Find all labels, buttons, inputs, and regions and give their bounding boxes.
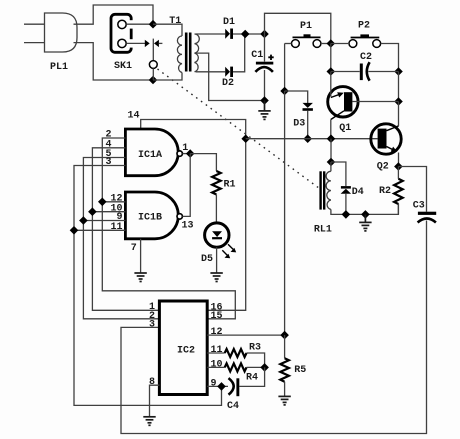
- IC2 pin 10 wire: [207, 366, 225, 368]
- pushbutton P2: [349, 21, 381, 48]
- wire P1-P2 node to P2 left: [331, 43, 349, 45]
- svg-text:R1: R1: [223, 180, 235, 191]
- svg-text:D1: D1: [223, 17, 235, 28]
- wire left rail P1 node to C2: [330, 44, 332, 72]
- node bus junction pin12: [98, 198, 107, 207]
- wire node down to C4 right plate: [239, 367, 264, 386]
- svg-text:Q2: Q2: [377, 162, 389, 173]
- wire right rail C2 to Q1 base node: [398, 72, 400, 102]
- svg-text:13: 13: [181, 220, 193, 231]
- wire rail x284 down to IC2 pin12 node: [284, 91, 286, 335]
- wire P1 left lead: [285, 43, 292, 45]
- svg-text:IC1B: IC1B: [138, 212, 162, 223]
- IC1B pin 12 wire: [102, 201, 125, 203]
- node bus junction pin11: [70, 226, 79, 235]
- node D4 bottom junction: [342, 210, 351, 219]
- IC2 pin 12 wire to R5 node: [207, 334, 284, 336]
- svg-text:C2: C2: [360, 52, 372, 63]
- wire P1 right lead: [321, 43, 331, 45]
- wire plug to loop bottom: [74, 43, 154, 80]
- capacitor C3: [413, 201, 436, 223]
- wire R4 to node: [247, 366, 265, 368]
- node C2 left junction: [327, 67, 336, 76]
- IC2: [159, 301, 207, 395]
- diode D2: [222, 67, 234, 90]
- node R3/R4 junction: [260, 363, 269, 372]
- LED D5: [201, 223, 236, 265]
- IC1A pin 3 wire / bus to IC2 pin9 line: [74, 166, 222, 406]
- svg-text:Q1: Q1: [339, 123, 351, 134]
- IC1B pin 11 wire: [74, 229, 125, 231]
- wire C3 down the right edge to bottom rail: [121, 221, 427, 434]
- resistor R4: [225, 363, 258, 383]
- IC2 pin 9 wire: [207, 385, 228, 387]
- wire +V over-route to pushbuttons: [265, 13, 331, 43]
- IC1B pin 7 stub: [140, 239, 142, 273]
- svg-text:3: 3: [105, 157, 111, 168]
- svg-text:D3: D3: [293, 119, 305, 130]
- svg-text:3: 3: [149, 319, 155, 330]
- svg-text:C1: C1: [251, 50, 263, 61]
- wire transformer primary bottom to node: [153, 73, 182, 81]
- wire D4 top lead: [331, 162, 346, 186]
- IC1A pin 5 wire / bus to IC2 pin2: [83, 158, 159, 319]
- wire secondary top lead: [196, 33, 226, 35]
- svg-text:15: 15: [211, 311, 223, 322]
- svg-text:R3: R3: [249, 343, 261, 354]
- resistor R1: [212, 171, 235, 222]
- node P1/D3 junction: [280, 87, 289, 96]
- node bus junction pin10: [88, 207, 97, 216]
- NAND gate IC1B: [125, 192, 182, 239]
- ground (relay rail): [359, 214, 371, 231]
- node: mains bottom junction: [149, 76, 158, 85]
- plug PL1: [24, 13, 77, 73]
- node relay rail ground junction: [361, 210, 370, 219]
- capacitor C1: [251, 34, 274, 101]
- svg-text:D5: D5: [201, 254, 213, 265]
- wire secondary bottom lead: [196, 71, 226, 73]
- node Q1 collector / Q2 base / relay junction: [327, 134, 336, 143]
- switch contact: SK1 lower pin arrow: [126, 39, 162, 80]
- svg-text:C4: C4: [227, 401, 239, 412]
- svg-text:12: 12: [211, 327, 223, 338]
- svg-text:D4: D4: [352, 187, 364, 198]
- wire SK1 upper pin to node: [126, 23, 153, 25]
- socket SK1: [111, 14, 134, 72]
- IC2 pin 11 wire: [207, 352, 225, 354]
- wire R3 to R4 node: [247, 353, 265, 367]
- resistor R2: [379, 167, 403, 215]
- node +V riser / relay line junction: [241, 134, 250, 143]
- wire relay node down to coil node: [330, 139, 332, 162]
- svg-text:9: 9: [211, 379, 217, 390]
- svg-text:RL1: RL1: [314, 224, 332, 235]
- svg-text:11: 11: [110, 222, 122, 233]
- svg-text:IC1A: IC1A: [138, 150, 162, 161]
- svg-text:R5: R5: [294, 365, 306, 376]
- svg-text:7: 7: [131, 243, 137, 254]
- IC1A pin 2 wire / bus to IC2 pin15: [102, 138, 235, 319]
- node C2 right junction: [394, 67, 403, 76]
- wire node to transformer primary: [153, 24, 182, 36]
- wire D1 to +V node: [233, 33, 265, 35]
- svg-text:14: 14: [127, 111, 139, 122]
- IC1A output pin 1: [183, 153, 191, 155]
- IC2 pin 8 wire to ground: [150, 385, 160, 417]
- ground (IC1 pin 7): [134, 273, 146, 282]
- node D1-D2 junction: [241, 30, 250, 39]
- svg-text:10: 10: [211, 360, 223, 371]
- ground (R5): [278, 396, 290, 405]
- svg-text:T1: T1: [169, 16, 181, 27]
- wire D5 to ground: [216, 247, 218, 273]
- svg-text:P1: P1: [300, 21, 312, 32]
- wire D3 top lead: [285, 91, 308, 107]
- wire secondary centre tap to ground rail: [196, 53, 265, 100]
- node D3 bottom junction: [303, 134, 312, 143]
- capacitor C2: [331, 52, 399, 80]
- transformer T1: [169, 16, 199, 72]
- wire +V riser: IC1 pin14 / IC2 pin16 supply: [141, 120, 246, 311]
- svg-text:R2: R2: [379, 186, 391, 197]
- svg-text:IC2: IC2: [177, 346, 195, 357]
- NAND gate IC1A: [125, 129, 182, 176]
- wire Q2 emitter to C3: [398, 167, 426, 212]
- IC1B pin 9 wire: [83, 220, 125, 222]
- wire gate output node to R1: [190, 154, 216, 171]
- pushbutton P1: [292, 21, 321, 47]
- node IC2 pin9 / C4 junction: [217, 382, 226, 391]
- node: mains top junction: [149, 20, 158, 29]
- relay RL1 coil: [314, 162, 399, 235]
- resistor R3: [225, 343, 261, 357]
- node gate outputs junction: [186, 149, 195, 158]
- mechanical link dotted line to relay: [158, 69, 320, 189]
- IC1B output pin 13 riser to node: [183, 154, 191, 217]
- ground (LED D5): [210, 273, 222, 282]
- diode D3: [293, 103, 313, 130]
- wire P2 right to right rail: [381, 44, 399, 72]
- svg-text:SK1: SK1: [114, 61, 132, 72]
- ground (main): [258, 101, 270, 120]
- node ground rail junction: [260, 96, 269, 105]
- svg-text:P2: P2: [358, 21, 370, 32]
- svg-text:11: 11: [211, 345, 223, 356]
- wire D2 riser to +V node: [233, 34, 245, 72]
- node C1 top junction: [260, 30, 269, 39]
- diode D4: [341, 186, 364, 198]
- svg-text:D2: D2: [222, 78, 234, 89]
- wire plug to loop top: [74, 5, 154, 24]
- diode D1: [223, 17, 235, 39]
- node Q1 base / Q2 collector junction: [394, 97, 403, 106]
- node IC2 pin12 / R5 junction: [280, 331, 289, 340]
- node P1-P2 junction: [327, 39, 336, 48]
- resistor R5: [280, 335, 306, 396]
- wire P1 left drop to D3 node: [284, 44, 286, 92]
- node relay coil top junction: [327, 158, 336, 167]
- ground (IC2 pin 8): [143, 417, 155, 426]
- svg-text:C3: C3: [413, 201, 425, 212]
- wire relay drive line y=138.7: [246, 138, 378, 140]
- capacitor C4: [227, 378, 239, 412]
- node bus junction pin9: [79, 216, 88, 225]
- transistor Q1: [328, 72, 399, 139]
- node Q2 emitter junction: [394, 162, 403, 171]
- wire D3 bottom lead: [307, 111, 309, 139]
- svg-text:R4: R4: [246, 373, 258, 384]
- IC1B pin 10 wire: [92, 211, 125, 213]
- IC1A pin 4 wire / bus to IC2 pin1: [92, 148, 159, 310]
- transistor Q2: [371, 102, 401, 173]
- svg-text:PL1: PL1: [50, 62, 68, 73]
- wire D4 bottom lead: [345, 194, 347, 215]
